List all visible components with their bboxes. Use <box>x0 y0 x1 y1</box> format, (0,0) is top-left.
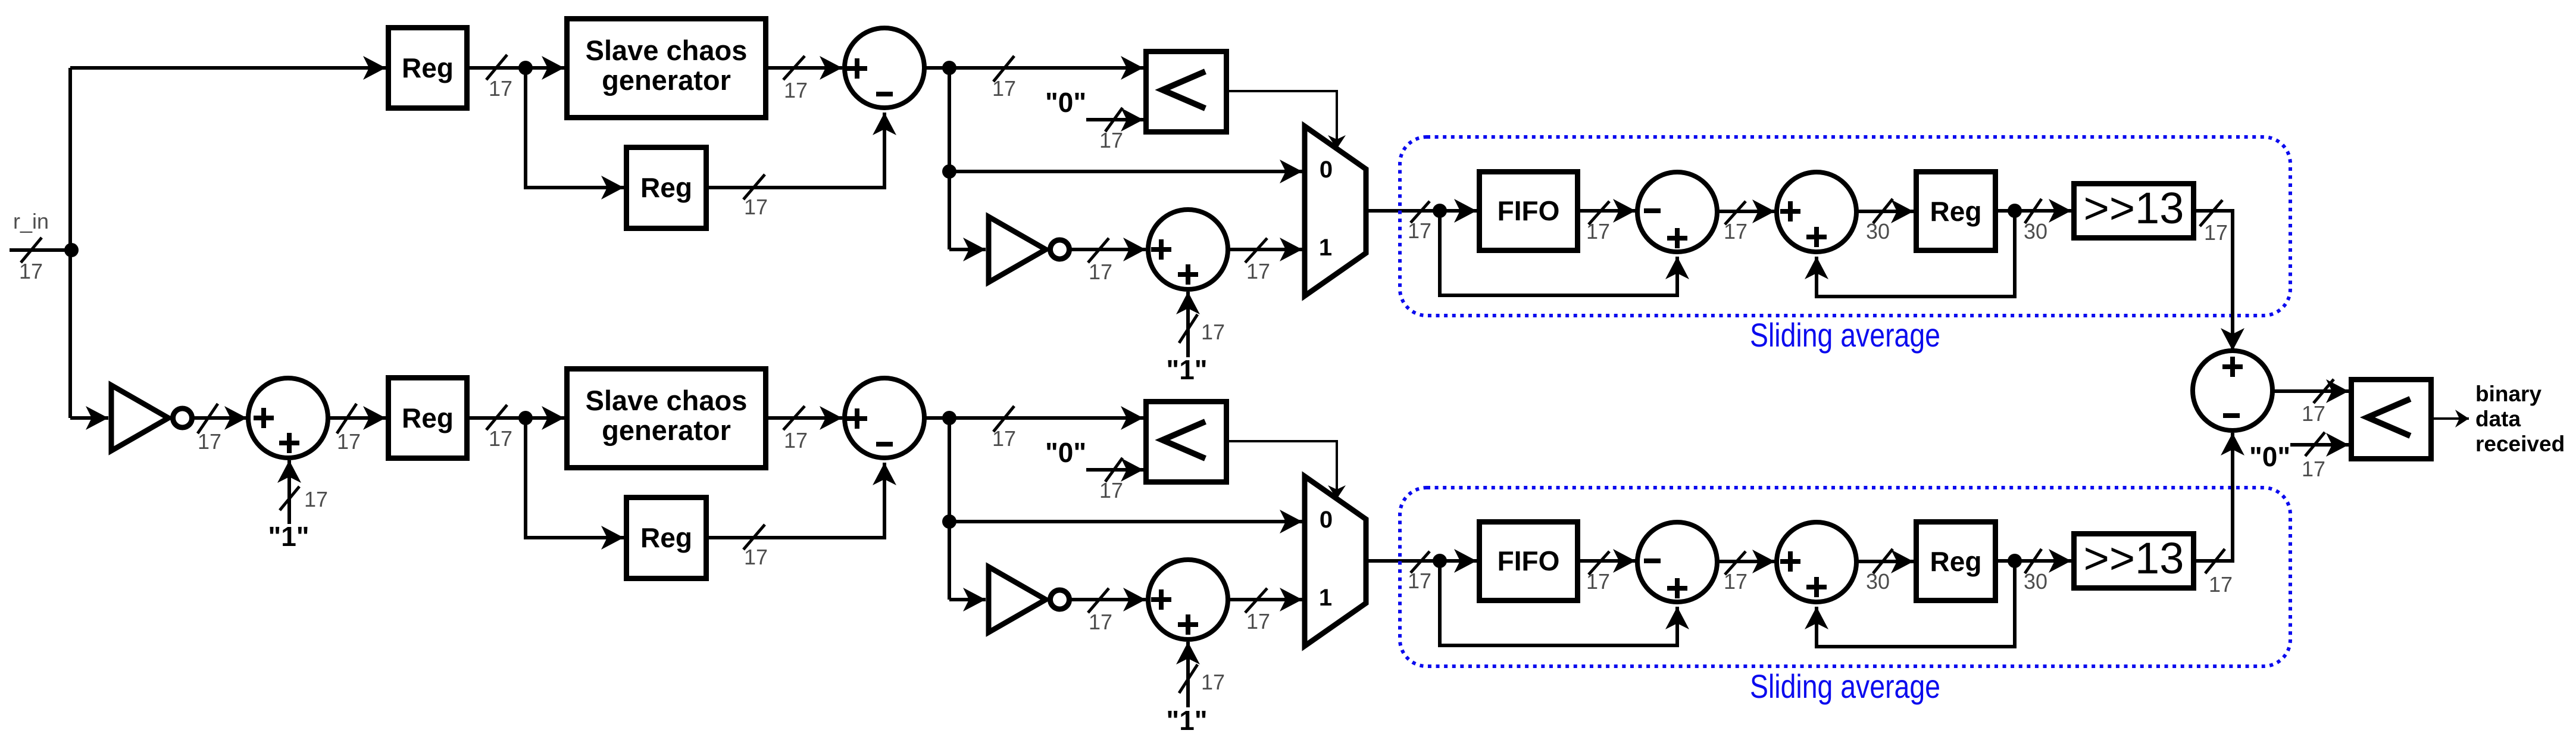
bus slash after N2 <box>198 404 218 433</box>
slave chaos generator U2 <box>567 369 766 468</box>
comparator C2 (less-than) <box>1146 402 1227 482</box>
svg-text:Reg: Reg <box>640 172 692 203</box>
bus slash after R3 <box>2025 199 2042 223</box>
bus slash after A4 <box>1245 588 1267 613</box>
svg-text:>>13: >>13 <box>2084 183 2184 233</box>
wire node B down to inverter N1 <box>949 248 986 251</box>
bus slash after S3 <box>2314 379 2334 403</box>
svg-text:17: 17 <box>337 429 361 454</box>
svg-text:17: 17 <box>1246 259 1270 283</box>
svg-text:FIFO: FIFO <box>1498 195 1560 226</box>
svg-text:17: 17 <box>1586 219 1610 244</box>
inverter N3 <box>989 567 1070 632</box>
node r_in junction <box>64 243 79 257</box>
svg-text:"1": "1" <box>268 521 309 552</box>
svg-text:1: 1 <box>1319 585 1332 611</box>
FIFO F2 <box>1480 522 1578 601</box>
wire F2 out to subtractor S5 <box>1580 559 1636 563</box>
svg-text:17: 17 <box>992 426 1016 451</box>
wire A3 out to register R4 <box>328 416 386 420</box>
wire S2 out to adder A2 <box>1717 210 1775 213</box>
adder A4 (+/+) <box>1148 560 1228 639</box>
wire S3 out to comparator C3 <box>2272 389 2349 393</box>
bus slash after U2 <box>783 406 805 430</box>
wire trunk to inverter N2 <box>70 416 108 420</box>
svg-text:17: 17 <box>304 487 328 511</box>
svg-text:"0": "0" <box>2249 441 2290 472</box>
bus slash after M2 <box>1411 551 1430 573</box>
svg-text:17: 17 <box>744 545 768 569</box>
wire S5 out to adder A5 <box>1717 560 1775 563</box>
svg-text:17: 17 <box>489 426 512 451</box>
bus slash after F2 <box>1589 551 1609 575</box>
register R4 (Reg) <box>389 378 467 458</box>
multiplexer M1 <box>1305 126 1366 296</box>
wire node E feedback to adder A2 <box>1817 211 2015 297</box>
wire R2 out up to subtractor S1 <box>709 113 884 188</box>
node H (mux-0 tap) <box>942 514 956 529</box>
wire node B vertical <box>948 68 951 249</box>
bus slash after A5 <box>1873 549 1893 573</box>
sliding average group 2 boundary <box>1400 488 2290 666</box>
wire N3 out to adder A4 <box>1071 598 1146 601</box>
comparator C3 (less-than) <box>2352 380 2431 459</box>
adder A5 (+/+) <box>1777 522 1856 602</box>
wire top input to Reg R1 <box>70 66 386 70</box>
register R5 (feedback Reg) <box>627 498 706 579</box>
register R6 (accumulator Reg) <box>1917 522 1996 601</box>
wire M2 out to FIFO F2 <box>1367 559 1477 563</box>
svg-text:17: 17 <box>2209 572 2233 597</box>
svg-text:17: 17 <box>1201 670 1225 694</box>
register R3 (accumulator Reg) <box>1917 172 1996 251</box>
svg-text:17: 17 <box>2204 220 2228 245</box>
svg-text:"0": "0" <box>1045 87 1086 118</box>
wire C1 select to mux M1 <box>1229 91 1337 149</box>
svg-text:generator: generator <box>602 64 731 96</box>
svg-text:Reg: Reg <box>402 52 454 83</box>
svg-text:17: 17 <box>19 259 43 283</box>
slave chaos generator U1 <box>567 19 766 118</box>
bus slash const1 A1 <box>1179 314 1198 343</box>
wire SH2 out up to final subtractor S3 <box>2196 433 2233 561</box>
wire node I bypass to subtractor S5 <box>1440 561 1677 645</box>
svg-text:30: 30 <box>2024 569 2047 594</box>
svg-text:FIFO: FIFO <box>1498 545 1560 576</box>
subtractor S5 (-/+) <box>1637 522 1717 602</box>
svg-text:17: 17 <box>2302 457 2325 481</box>
bus slash const1 A3 <box>280 486 299 510</box>
bus slash after R5 <box>743 525 765 550</box>
bus slash const0 C1 <box>1105 108 1123 132</box>
svg-text:17: 17 <box>198 429 221 454</box>
bus slash after R4 <box>486 405 507 430</box>
bus slash after S4 <box>993 406 1014 432</box>
bus slash after S1 <box>993 56 1014 82</box>
svg-text:17: 17 <box>1089 610 1112 634</box>
svg-text:r_in: r_in <box>13 209 49 233</box>
svg-text:0: 0 <box>1320 157 1333 183</box>
svg-text:17: 17 <box>744 195 768 219</box>
svg-text:Reg: Reg <box>640 522 692 553</box>
wire node J feedback to adder A5 <box>1817 561 2015 647</box>
adder A1 (+/+) <box>1148 210 1228 289</box>
wire R3 out to shifter SH1 <box>1998 209 2071 213</box>
comparator C1 (less-than) <box>1146 52 1227 132</box>
final subtractor S3 (+/-) <box>2193 351 2272 430</box>
wire node G down to inverter N3 <box>949 598 986 601</box>
bus slash after N1 <box>1088 238 1109 263</box>
svg-text:Sliding average: Sliding average <box>1750 316 1940 354</box>
bus slash after S2 <box>1725 201 1746 224</box>
bus slash after S5 <box>1725 551 1746 575</box>
adder A2 (+/+) <box>1777 172 1856 252</box>
bus slash after A2 <box>1873 199 1893 223</box>
node B (S1 output tap) <box>942 61 956 75</box>
svg-text:17: 17 <box>1408 219 1431 243</box>
svg-text:30: 30 <box>1866 569 1890 594</box>
wire const1 up to A1 <box>1186 292 1190 357</box>
svg-text:"1": "1" <box>1166 705 1207 736</box>
wire r_in vertical trunk <box>68 68 72 418</box>
wire const0 to C1 <box>1086 118 1143 121</box>
register R1 (Reg) <box>389 28 467 108</box>
inverter N1 <box>989 217 1070 282</box>
wire F1 out to subtractor S2 <box>1580 209 1636 213</box>
bus slash after R1 <box>486 55 507 80</box>
FIFO F1 <box>1480 172 1578 251</box>
svg-text:17: 17 <box>1201 320 1225 344</box>
bus slash const0 C3 <box>2305 432 2325 456</box>
bus slash after SH2 <box>2205 549 2225 573</box>
node E (R3 output tap) <box>2008 204 2022 218</box>
svg-text:Slave chaos: Slave chaos <box>586 385 748 416</box>
bus slash const0 C2 <box>1105 458 1123 482</box>
wire const0 to C2 <box>1086 468 1143 472</box>
wire r_in input <box>10 248 71 252</box>
svg-text:0: 0 <box>1320 507 1333 533</box>
svg-text:17: 17 <box>1586 569 1610 594</box>
svg-text:Sliding average: Sliding average <box>1750 667 1940 705</box>
svg-text:Reg: Reg <box>1930 546 1982 577</box>
svg-text:30: 30 <box>1866 219 1890 244</box>
bus slash after U1 <box>783 56 805 80</box>
wire U2 out to subtractor S4 <box>768 416 842 420</box>
node A (top Reg output tap) <box>518 61 533 75</box>
wire R5 out up to subtractor S4 <box>709 463 884 538</box>
node F (bottom Reg output tap) <box>518 411 533 425</box>
svg-text:generator: generator <box>602 414 731 446</box>
svg-text:Slave chaos: Slave chaos <box>586 35 748 66</box>
svg-text:17: 17 <box>1089 260 1112 284</box>
wire A4 out to mux M2 input 1 <box>1228 598 1302 601</box>
sliding average group 1 boundary <box>1400 137 2290 316</box>
wire const0 to C3 <box>2290 443 2349 447</box>
wire R4 out to node F <box>470 416 564 420</box>
wire node F down to feedback Reg R5 <box>526 418 624 538</box>
inverter N2 <box>111 385 192 451</box>
svg-text:17: 17 <box>992 76 1016 101</box>
bus slash after A3 <box>337 404 357 433</box>
wire S1 out to comparator C1 <box>924 66 1143 70</box>
wire M1 out to FIFO F1 <box>1367 209 1477 213</box>
shifter SH2 (>>13) <box>2074 533 2194 588</box>
svg-text:>>13: >>13 <box>2084 533 2184 583</box>
adder A3 (+/+) <box>248 378 328 458</box>
svg-text:17: 17 <box>1099 478 1123 503</box>
wire SH1 out down to final subtractor S3 <box>2196 211 2233 351</box>
bus slash after R2 <box>743 174 765 199</box>
wire node G vertical <box>948 418 951 600</box>
svg-text:1: 1 <box>1319 235 1332 261</box>
wire node D bypass to subtractor S2 <box>1440 211 1677 295</box>
node J (R6 output tap) <box>2008 554 2022 568</box>
multiplexer M2 <box>1305 476 1366 646</box>
bus slash after M1 <box>1411 201 1430 223</box>
bus slash after SH1 <box>2200 200 2222 226</box>
svg-text:17: 17 <box>784 78 808 102</box>
subtractor S1 (+/-) <box>845 28 924 108</box>
wire C3 output <box>2434 417 2469 420</box>
wire R6 out to shifter SH2 <box>1998 559 2071 563</box>
node G (S4 output tap) <box>942 411 956 425</box>
wire N1 out to adder A1 <box>1071 248 1146 251</box>
wire node A down to feedback Reg R2 <box>526 68 624 188</box>
svg-text:Reg: Reg <box>402 402 454 433</box>
subtractor S4 (+/-) <box>845 378 924 458</box>
bus slash const1 A4 <box>1179 664 1198 693</box>
node D (FIFO input tap) <box>1433 204 1447 218</box>
wire const1 up to A4 <box>1186 642 1190 707</box>
bus slash after N3 <box>1088 588 1109 613</box>
node C (mux-0 tap) <box>942 164 956 179</box>
bus slash after R6 <box>2025 549 2042 573</box>
wire R1 out to node A <box>470 66 564 70</box>
bus slash after F1 <box>1589 201 1609 224</box>
wire S4 out to comparator C2 <box>924 416 1143 420</box>
wire C2 select to mux M2 <box>1229 441 1337 499</box>
svg-text:17: 17 <box>1724 569 1747 594</box>
svg-text:"0": "0" <box>1045 437 1086 468</box>
wire node C to mux M1 input 0 <box>949 170 1302 173</box>
svg-text:17: 17 <box>1408 569 1431 593</box>
wire const1 up to A3 <box>287 460 291 524</box>
wire N2 out to adder A3 <box>194 416 247 420</box>
svg-text:17: 17 <box>784 428 808 453</box>
svg-text:17: 17 <box>1246 609 1270 634</box>
node I (FIFO input tap) <box>1433 554 1447 568</box>
svg-text:17: 17 <box>2302 401 2325 426</box>
wire A5 out to register R6 <box>1856 560 1914 563</box>
bus slash after A1 <box>1245 238 1267 263</box>
wire node H to mux M2 input 0 <box>949 520 1302 523</box>
wire A1 out to mux M1 input 1 <box>1228 248 1302 251</box>
svg-text:Reg: Reg <box>1930 196 1982 227</box>
svg-text:17: 17 <box>489 76 512 101</box>
subtractor S2 (-/+) <box>1637 172 1717 252</box>
wire A2 out to register R3 <box>1856 210 1914 213</box>
register R2 (feedback Reg) <box>627 148 706 229</box>
svg-text:"1": "1" <box>1166 354 1207 385</box>
svg-text:17: 17 <box>1724 219 1747 244</box>
wire U1 out to subtractor S1 <box>768 66 842 70</box>
svg-text:30: 30 <box>2024 219 2047 244</box>
shifter SH1 (>>13) <box>2074 183 2194 238</box>
svg-text:17: 17 <box>1099 128 1123 152</box>
bus slash r_in <box>21 238 42 263</box>
